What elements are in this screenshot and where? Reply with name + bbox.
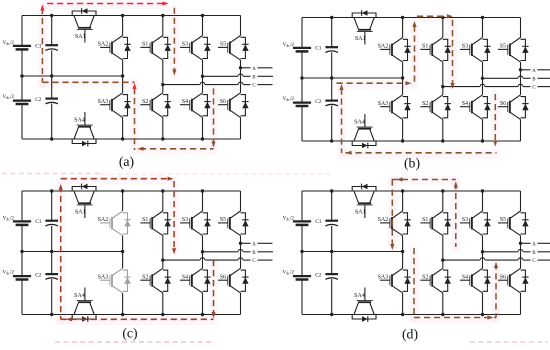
label C (c) [252,259,255,264]
svg-text:SA2: SA2 [98,42,108,48]
junction SA top (a) [121,14,124,17]
label S1 (c) [142,217,148,223]
current path (a): vertical at S1 diode [173,8,175,72]
label C (b) [532,86,535,91]
IGBT S6 (c) [218,268,249,293]
label S6 (c) [220,275,226,281]
svg-text:(b): (b) [404,156,420,172]
junction SA bottom (a) [121,137,124,140]
wire bottom rail (b) [302,140,521,142]
capacitor C2 (c) [45,274,58,279]
battery Vdc/2 upper (d) [293,221,311,225]
battery Vdc/2 lower (d) [293,276,311,279]
IGBT S4 (b) [460,95,491,120]
svg-text:(c): (c) [122,326,137,342]
junction S2 bottom (a) [161,137,164,140]
junction phase C tap (b) [441,85,444,88]
label A (d) [532,242,536,247]
wire mid rail (c) [22,251,123,253]
junction mid-cap (a) [50,74,53,77]
jpeg ghost dashed line bottom right [470,341,548,343]
svg-text:S6: S6 [500,101,506,107]
wire capacitor branch (d) [331,191,333,315]
wire phase A (c) [241,242,273,244]
label B (a) [252,75,255,80]
wire phase C (c) [163,259,273,261]
junction S2 bottom (d) [441,313,444,316]
crossover B over S5 leg (c) [238,249,243,251]
IGBT S2 (b) [420,95,451,120]
label S5 (a) [220,42,226,48]
IGBT SA1 (d) [352,184,376,218]
capacitor C1 (a) [45,45,58,50]
label Vdc/2 lower (a) [3,94,15,100]
label Vdc/2 upper (c) [3,215,15,221]
junction S3 top (c) [201,189,204,192]
svg-text:S3: S3 [462,44,468,50]
wire S5/S6 leg (a) [240,16,242,140]
svg-text:(d): (d) [402,327,418,343]
caption (c) [122,326,137,342]
label SA1 (b) [355,36,366,42]
label Vdc/2 lower (d) [283,269,295,275]
wire S3/S4 leg (a) [202,16,204,140]
current path (d): arrow down through SA2 [390,244,394,250]
current path (a): vertical at S4 diode [213,88,215,143]
current path (a): arrow left below bottom rail [138,147,144,151]
IGBT S3 (d) [460,211,491,236]
junction S4 bottom (d) [481,313,484,316]
label SA2 (a) [98,42,108,48]
label S5 (c) [220,217,226,223]
battery Vdc/2 upper (a) [13,46,31,50]
crossover C over S3 leg (d) [480,258,485,260]
svg-text:S6: S6 [500,275,506,281]
IGBT S5 (a) [218,36,249,61]
IGBT S3 (c) [180,211,211,236]
battery Vdc/2 lower (b) [293,103,311,106]
label Vdc/2 upper (d) [283,215,295,221]
IGBT S1 (a) [140,36,171,61]
current path (b): vertical at S4 diode [494,94,496,142]
svg-text:S4: S4 [182,99,188,105]
label S1 (a) [142,42,148,48]
current path (d): horizontal above top rail [392,179,456,181]
junction cap bottom (b) [330,139,333,142]
crossover C over S3 leg (a) [200,82,205,84]
junction SA mid (b) [401,76,404,79]
jpeg pink halo under dashed paths [42,5,496,321]
label S2 (d) [422,275,428,281]
label C (d) [532,259,535,264]
svg-text:SA4: SA4 [354,293,365,299]
junction phase A tap (d) [519,242,522,245]
IGBT S4 (a) [180,93,211,118]
svg-text:S3: S3 [182,42,188,48]
junction SA top (d) [401,189,404,192]
label Vdc/2 upper (b) [283,42,295,48]
junction SA mid (c) [121,250,124,253]
svg-text:S2: S2 [422,275,428,281]
wire S5/S6 leg (b) [520,18,522,142]
IGBT SA1 (b) [352,10,376,44]
label C1 (d) [315,219,322,225]
IGBT SA2 (a) [100,36,131,61]
current path (b): horizontal on top rail [417,15,449,17]
svg-text:S6: S6 [220,99,226,105]
current path (d): vertical at SA3-S2 gap [413,248,415,318]
current path (b): arrow up at SA2 diode [412,21,416,27]
current path (b): arrow left below bottom rail [346,151,352,155]
junction SA bottom (c) [121,313,124,316]
wire bottom rail (a) [22,138,241,140]
junction phase A tap (b) [519,68,522,71]
wire SA leg (d) [402,191,404,315]
junction phase B tap (d) [481,250,484,253]
wire phase B (d) [483,251,550,253]
current path (c): arrow left below bottom rail [66,317,72,321]
junction S3 top (b) [481,16,484,19]
IGBT S6 (b) [498,95,529,120]
wire top rail (a) [22,15,241,17]
junction S4 bottom (b) [481,139,484,142]
wire phase B (a) [203,75,274,77]
wire bottom rail (d) [302,314,521,316]
label C (a) [252,84,255,89]
junction phase C tap (a) [161,83,164,86]
wire phase C (d) [443,259,550,261]
crossover C over S3 leg (c) [200,258,205,260]
svg-text:C: C [532,259,535,264]
IGBT SA3 (d) [380,268,411,293]
crossover C over S5 leg (c) [238,258,243,260]
current path (b): vertical at S1 diode [452,20,454,83]
svg-text:A: A [532,69,536,74]
wire left rail (a) [21,16,23,140]
junction mid-cap (d) [330,250,333,253]
junction cap bottom (a) [50,137,53,140]
svg-text:S4: S4 [182,275,188,281]
IGBT S5 (c) [218,211,249,236]
junction S3 top (d) [481,189,484,192]
svg-text:A: A [252,67,256,72]
svg-text:S6: S6 [220,275,226,281]
junction cap top (b) [330,16,333,19]
svg-text:S3: S3 [182,217,188,223]
label SA2 (b) [378,44,388,50]
current path (c): arrow down at S1 diode [172,248,176,254]
label S3 (d) [462,217,468,223]
current path (c): vertical at S4 diode [213,260,215,314]
label S2 (b) [422,101,428,107]
IGBT S1 (d) [420,211,451,236]
svg-text:S4: S4 [462,275,468,281]
label B (b) [532,77,535,82]
wire mid rail (b) [302,77,403,79]
label SA4 (d) [354,293,365,299]
label S4 (a) [182,99,188,105]
svg-text:SA3: SA3 [378,101,388,107]
IGBT SA2 (c) [100,211,131,236]
wire capacitor branch (b) [331,18,333,142]
svg-text:C1: C1 [35,219,42,225]
label S4 (c) [182,275,188,281]
wire S1/S2 leg (a) [162,16,164,140]
IGBT SA2 (b) [380,38,411,63]
label SA4 (a) [74,118,85,124]
junction cap bottom (c) [50,313,53,316]
svg-text:S1: S1 [422,217,428,223]
IGBT S6 (a) [218,93,249,118]
battery Vdc/2 upper (c) [13,221,31,225]
wire S3/S4 leg (d) [482,191,484,315]
svg-text:SA4: SA4 [354,120,365,126]
svg-text:SA1: SA1 [75,34,86,40]
wire S3/S4 leg (b) [482,18,484,142]
crossover B over S5 leg (b) [518,76,523,78]
IGBT S4 (c) [180,268,211,293]
svg-text:SA4: SA4 [74,293,85,299]
IGBT SA1 (c) [72,184,96,218]
label C2 (d) [315,273,322,279]
svg-text:S4: S4 [462,101,468,107]
current path (a): horizontal below bottom rail [140,148,214,150]
capacitor C2 (a) [45,99,58,104]
svg-text:B: B [532,251,535,256]
label S3 (b) [462,44,468,50]
wire top rail (c) [22,190,241,192]
current path (a): arrow up at top-left [40,5,44,11]
wire capacitor branch (c) [51,191,53,315]
label B (c) [252,251,255,256]
svg-text:C2: C2 [35,273,42,279]
label A (b) [532,69,536,74]
wire SA leg (a) [122,16,124,140]
current path (d): arrow up at S4 diode [494,262,498,268]
svg-text:SA2: SA2 [378,44,388,50]
svg-text:S5: S5 [500,217,506,223]
IGBT S4 (d) [460,268,491,293]
IGBT SA4 (b) [352,114,376,148]
svg-text:SA3: SA3 [378,275,388,281]
label SA1 (a) [75,34,86,40]
svg-text:SA2: SA2 [378,217,388,223]
current path (a): arrow down at S1 diode [172,70,176,76]
current path (b): arrow right on top rail [447,14,453,18]
junction mid-left (d) [300,250,303,253]
wire mid rail (a) [22,75,123,77]
wire top rail (d) [302,190,521,192]
label B (d) [532,251,535,256]
current path (b): arrow right above mid rail [405,81,411,85]
junction cap top (d) [330,189,333,192]
junction phase A tap (c) [239,242,242,245]
svg-text:SA2: SA2 [98,217,108,223]
current path (b): horizontal above mid rail [337,82,408,84]
caption (d) [402,327,418,343]
svg-text:S2: S2 [142,99,148,105]
battery Vdc/2 lower (a) [13,101,31,104]
current path (d): vertical at S4 diode [495,263,497,317]
current path (b): arrow down at S4 diode [493,141,497,147]
IGBT S6 (d) [498,268,529,293]
svg-text:SA3: SA3 [98,99,108,105]
junction cap top (a) [50,14,53,17]
junction SA mid (d) [401,250,404,253]
capacitor C1 (c) [45,221,58,226]
svg-text:C1: C1 [35,43,42,49]
capacitor C1 (b) [325,47,338,52]
label C1 (c) [35,219,42,225]
current path (a): red arrow right above top rail [163,1,169,5]
junction phase B tap (b) [481,77,484,80]
svg-text:C2: C2 [315,99,322,105]
IGBT S3 (a) [180,36,211,61]
battery Vdc/2 lower (c) [13,276,31,279]
svg-text:S3: S3 [462,217,468,223]
svg-text:C2: C2 [35,97,42,103]
IGBT S5 (b) [498,38,529,63]
IGBT S1 (c) [140,211,171,236]
junction S1 top (c) [161,189,164,192]
current path (b): arrow down at S1 diode [450,83,454,89]
junction phase B tap (c) [201,250,204,253]
wire S3/S4 leg (c) [202,191,204,315]
label S3 (a) [182,42,188,48]
junction S1 top (d) [441,189,444,192]
label C1 (a) [35,43,42,49]
label S6 (b) [500,101,506,107]
IGBT S2 (d) [420,268,451,293]
wire phase B (b) [483,77,550,79]
IGBT SA3 (b) [380,95,411,120]
label SA2 (c) [98,217,108,223]
svg-text:B: B [252,251,255,256]
jpeg ghost dashed line between quadrants [2,173,100,175]
svg-text:S5: S5 [500,44,506,50]
IGBT S2 (a) [140,93,171,118]
IGBT S1 (b) [420,38,451,63]
svg-text:C2: C2 [315,273,322,279]
caption (b) [404,156,420,172]
current path (a): vertical at S2 branch [134,88,136,150]
IGBT S3 (b) [460,38,491,63]
junction phase C tap (d) [441,258,444,261]
svg-text:C: C [252,259,255,264]
label C2 (c) [35,273,42,279]
current path (a): vertical up left of C1 [41,8,43,82]
capacitor C2 (d) [325,274,338,279]
current path (d): arrow left above top rail [397,177,403,181]
label S6 (d) [500,275,506,281]
wire left rail (b) [301,18,303,142]
svg-text:SA1: SA1 [355,210,366,216]
wire left rail (d) [301,191,303,315]
label SA4 (c) [74,293,85,299]
wire capacitor branch (a) [51,16,53,140]
junction cap top (c) [50,189,53,192]
wire phase C (a) [163,84,273,86]
junction SA mid (a) [121,74,124,77]
label S4 (d) [462,275,468,281]
current path (c): arrow up left of C1 [59,184,63,190]
label SA1 (d) [355,210,366,216]
svg-text:A: A [252,242,256,247]
label Vdc/2 lower (b) [283,96,295,102]
wire S5/S6 leg (c) [240,191,242,315]
label C1 (b) [315,45,322,51]
junction S3 top (a) [201,14,204,17]
label SA4 (b) [354,120,365,126]
label S3 (c) [182,217,188,223]
battery Vdc/2 upper (b) [293,48,311,52]
caption (a) [119,154,134,170]
crossover C over S5 leg (a) [238,82,243,84]
junction SA bottom (b) [401,139,404,142]
svg-text:SA1: SA1 [355,36,366,42]
IGBT SA3 (a) [100,93,131,118]
current path (c): arrow down at S4 diode [211,312,215,318]
crossover C over S5 leg (d) [518,258,523,260]
svg-text:SA3: SA3 [98,275,108,281]
current path (a): arrow up at S2 branch [132,83,136,89]
current path (a): arrow down at S4 diode [211,142,215,148]
label Vdc/2 upper (a) [3,40,15,46]
wire phase A (b) [521,69,550,71]
label SA3 (c) [98,275,108,281]
wire left rail (c) [21,191,23,315]
capacitor C2 (b) [325,101,338,106]
junction phase A tap (a) [239,66,242,69]
svg-text:S5: S5 [220,217,226,223]
label S5 (b) [500,44,506,50]
IGBT SA1 (a) [72,8,96,42]
current path (c): horizontal above top rail [61,178,169,180]
label S2 (a) [142,99,148,105]
label SA3 (b) [378,101,388,107]
current path (c): horizontal below bottom rail [61,318,214,320]
current path (b): vertical left of SA4 [341,89,343,154]
label S2 (c) [142,275,148,281]
current path (d): vertical through SA2 [391,180,393,247]
svg-text:B: B [252,75,255,80]
IGBT S2 (c) [140,268,171,293]
svg-text:SA1: SA1 [75,210,86,216]
IGBT S5 (d) [498,211,529,236]
wire S1/S2 leg (d) [442,191,444,315]
IGBT SA4 (d) [352,288,376,322]
junction S2 bottom (c) [161,313,164,316]
current path (c): vertical left of C1 [60,186,62,319]
junction SA top (b) [401,16,404,19]
junction mid-cap (b) [330,76,333,79]
IGBT SA4 (a) [72,112,96,146]
label A (c) [252,242,256,247]
junction S2 bottom (b) [441,139,444,142]
wire SA leg (b) [402,18,404,142]
svg-text:S1: S1 [422,44,428,50]
wire top rail (b) [302,17,521,19]
wire SA leg (c) [122,191,124,315]
current path (a): horizontal above mid rail [42,81,134,83]
current path (c): vertical at S1 diode [173,181,175,250]
label S1 (b) [422,44,428,50]
label C2 (a) [35,97,42,103]
wire S5/S6 leg (d) [520,191,522,315]
junction phase B tap (a) [201,75,204,78]
wire S1/S2 leg (b) [442,18,444,142]
junction SA bottom (d) [401,313,404,316]
